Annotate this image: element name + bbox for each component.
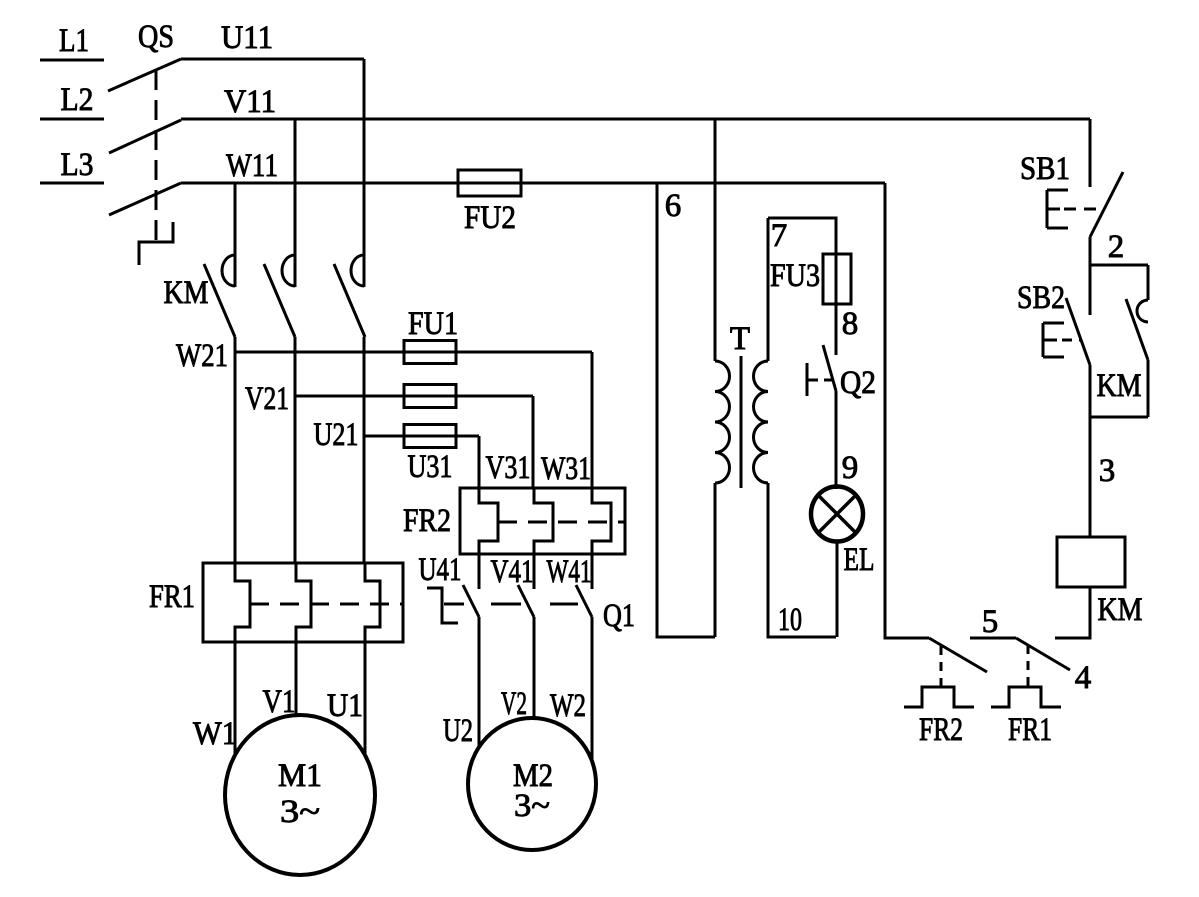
svg-text:KM: KM xyxy=(1097,368,1142,404)
svg-text:Q1: Q1 xyxy=(603,598,635,634)
svg-text:EL: EL xyxy=(844,542,875,578)
svg-text:U11: U11 xyxy=(221,20,273,56)
svg-text:3~: 3~ xyxy=(280,794,320,830)
svg-text:W2: W2 xyxy=(550,688,586,724)
svg-text:2: 2 xyxy=(1108,229,1125,265)
svg-text:U31: U31 xyxy=(408,449,453,485)
svg-text:SB2: SB2 xyxy=(1017,280,1065,316)
svg-text:V1: V1 xyxy=(263,684,296,720)
svg-text:L1: L1 xyxy=(59,23,89,59)
svg-text:V2: V2 xyxy=(501,686,527,722)
svg-text:U41: U41 xyxy=(419,552,462,588)
svg-text:W1: W1 xyxy=(193,716,237,752)
svg-text:V41: V41 xyxy=(491,554,534,590)
svg-text:10: 10 xyxy=(778,602,802,638)
svg-text:M1: M1 xyxy=(278,758,322,794)
svg-text:W21: W21 xyxy=(176,338,228,374)
svg-text:9: 9 xyxy=(842,450,859,486)
svg-text:FR1: FR1 xyxy=(1008,712,1052,748)
svg-text:5: 5 xyxy=(982,604,999,640)
svg-text:T: T xyxy=(730,321,750,357)
svg-text:FR1: FR1 xyxy=(149,579,195,615)
svg-text:FU2: FU2 xyxy=(464,200,516,236)
svg-text:FU3: FU3 xyxy=(770,258,820,294)
svg-text:U2: U2 xyxy=(443,713,473,749)
svg-text:7: 7 xyxy=(771,218,788,254)
svg-text:W41: W41 xyxy=(547,554,592,590)
svg-text:U1: U1 xyxy=(327,688,363,724)
svg-text:V11: V11 xyxy=(224,84,276,120)
svg-text:FR2: FR2 xyxy=(403,503,451,539)
svg-text:V31: V31 xyxy=(486,450,531,486)
svg-text:KM: KM xyxy=(164,275,209,311)
svg-text:FU1: FU1 xyxy=(408,306,458,342)
svg-text:3: 3 xyxy=(1099,453,1116,489)
svg-text:Q2: Q2 xyxy=(840,365,876,401)
svg-text:4: 4 xyxy=(1075,660,1092,696)
svg-text:6: 6 xyxy=(665,188,682,224)
svg-text:FR2: FR2 xyxy=(919,712,963,748)
svg-text:8: 8 xyxy=(842,306,859,342)
svg-text:KM: KM xyxy=(1098,592,1143,628)
svg-text:W31: W31 xyxy=(541,451,591,487)
svg-text:QS: QS xyxy=(138,19,174,55)
svg-text:L2: L2 xyxy=(61,82,94,118)
svg-text:L3: L3 xyxy=(61,147,94,183)
svg-text:U21: U21 xyxy=(314,417,359,453)
svg-text:W11: W11 xyxy=(226,148,278,184)
svg-text:3~: 3~ xyxy=(514,788,550,824)
svg-text:V21: V21 xyxy=(245,381,289,417)
svg-text:SB1: SB1 xyxy=(1020,151,1070,187)
